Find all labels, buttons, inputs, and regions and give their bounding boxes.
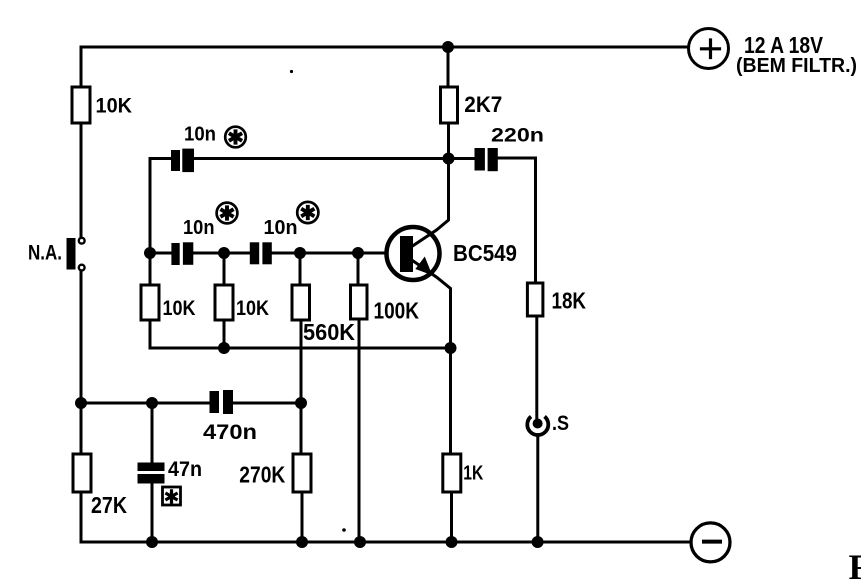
wire 47n lower lead [151, 484, 154, 543]
wire 100K bottom lead to ground rail [358, 319, 361, 542]
wire 27K top lead [80, 403, 83, 454]
svg-text:47n: 47n [168, 458, 202, 481]
speck (scan noise) [342, 528, 346, 532]
wire row-158 left corner down [149, 159, 152, 254]
svg-text:10n: 10n [264, 217, 298, 239]
wire bottom ground rail [81, 541, 690, 544]
wire switch down to lower-left node [80, 272, 83, 404]
capacitor 10n (second) [171, 242, 193, 265]
wire row-253 base line segment 1 [150, 252, 172, 255]
switch N.A. pushbutton [67, 238, 76, 270]
wire row-253 segment 3 to base [272, 252, 400, 255]
svg-text:10K: 10K [96, 95, 133, 118]
resistor 100K [351, 285, 368, 319]
terminal + supply [689, 29, 729, 69]
wire left column upper lead [80, 47, 83, 87]
resistor 18K [527, 283, 543, 316]
wire 270K lower lead [301, 492, 304, 542]
resistor 27K [73, 454, 91, 492]
svg-text:560K: 560K [303, 319, 355, 345]
svg-text:F: F [849, 547, 861, 581]
wire row-158 segment 2 [195, 157, 474, 160]
symbol circled asterisk (second) [217, 203, 238, 224]
resistor 10K (top left) [72, 87, 90, 123]
resistor 10K (row a, x150) [141, 285, 159, 320]
wire row-253 segment 2 [193, 252, 250, 255]
symbol boxed asterisk [163, 487, 181, 505]
svg-text:(BEM FILTR.): (BEM FILTR.) [736, 55, 857, 77]
wire 1K top lead [449, 348, 452, 454]
node 100K ground junction [354, 536, 366, 548]
resistor 2K7 [441, 87, 458, 123]
node row-253 third (560K top) [294, 247, 306, 259]
wire row-158 segment 1 [150, 157, 173, 160]
wire 18K bottom lead to S jack [535, 316, 538, 419]
svg-text:.S: .S [552, 412, 569, 435]
wire 2K7 bottom lead [447, 123, 450, 159]
terminal - ground [691, 523, 730, 562]
node 1K ground junction [446, 536, 458, 548]
wire 560K top lead [299, 253, 302, 285]
wire 10K-a top lead [149, 253, 152, 285]
wire 10K bottom to switch [80, 123, 83, 237]
svg-text:27K: 27K [91, 492, 127, 518]
svg-text:470n: 470n [203, 421, 257, 444]
svg-text:18K: 18K [552, 288, 587, 314]
node 270K ground junction [296, 536, 308, 548]
svg-text:220n: 220n [491, 124, 544, 146]
node lower-left junction [75, 397, 87, 409]
node supply junction at 2K7 top [442, 41, 454, 53]
resistor 1K [443, 454, 461, 492]
wire row-158 segment 3 to right column [498, 158, 536, 283]
svg-text:270K: 270K [239, 461, 285, 487]
node row-253 second [218, 247, 230, 259]
wire 27K bottom to ground rail [80, 492, 83, 542]
capacitor 220n [475, 148, 498, 171]
node row-253 fourth (100K top) [352, 247, 364, 259]
wire 47n upper lead [151, 403, 154, 463]
resistor 270K [293, 454, 311, 492]
node second 10K bottom junction [218, 342, 230, 354]
node S ground junction [532, 536, 544, 548]
wire 2K7 top lead [447, 47, 450, 87]
svg-text:BC549: BC549 [453, 240, 517, 266]
wire 10K-b bottom lead [223, 320, 226, 348]
wire 1K bottom lead [450, 492, 453, 542]
node 47n top junction [146, 397, 158, 409]
svg-text:100K: 100K [374, 297, 420, 323]
speck (scan noise) [290, 70, 293, 73]
capacitor 47n [138, 463, 165, 484]
wire 10K-b top lead [223, 253, 226, 285]
svg-text:N.A.: N.A. [28, 241, 62, 265]
node emitter junction [445, 342, 457, 354]
svg-text:10n: 10n [183, 217, 215, 239]
wire top supply rail [81, 46, 689, 49]
transistor Q1 BC549 [387, 159, 451, 349]
wire row-348 feedback line [150, 320, 451, 348]
wire 100K top lead [357, 253, 360, 285]
resistor 10K (row b, x224) [215, 285, 233, 320]
capacitor 10n (first, top) [171, 149, 194, 173]
node row-253 left [144, 247, 156, 259]
svg-text:2K7: 2K7 [464, 92, 502, 117]
wire 270K upper lead [300, 403, 303, 454]
wire S jack to ground rail [536, 435, 539, 542]
svg-text:10n: 10n [184, 124, 216, 146]
node 270K top junction [295, 397, 307, 409]
capacitor 470n [210, 390, 234, 414]
symbol circled asterisk (third) [297, 202, 318, 223]
svg-text:1K: 1K [463, 463, 483, 485]
svg-text:10K: 10K [163, 297, 196, 320]
wire row-403 right segment [233, 402, 301, 405]
svg-text:10K: 10K [236, 297, 269, 320]
connector S output jack [527, 417, 548, 436]
symbol circled asterisk (first) [225, 127, 246, 148]
node 47n ground junction [146, 536, 158, 548]
wire row-403 left segment [81, 402, 210, 405]
switch contact bottom circle [79, 265, 85, 271]
capacitor 10n (third) [250, 242, 272, 264]
node collector junction (2K7 bottom) [443, 153, 455, 165]
resistor 560K [292, 285, 310, 320]
switch contact top circle [79, 238, 85, 244]
wire 560K bottom lead crossing row-348 [300, 320, 303, 403]
